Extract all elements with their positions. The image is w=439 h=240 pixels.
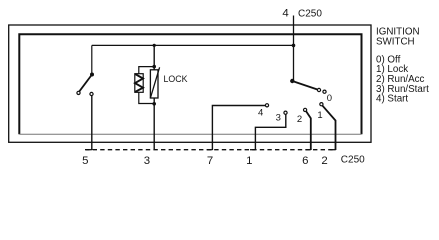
svg-text:4: 4 <box>282 8 288 20</box>
svg-text:3: 3 <box>144 155 150 167</box>
svg-text:1: 1 <box>246 155 252 167</box>
svg-text:5: 5 <box>82 155 88 167</box>
svg-text:1: 1 <box>317 110 322 121</box>
svg-text:2: 2 <box>297 114 302 125</box>
svg-text:LOCK: LOCK <box>164 74 188 84</box>
svg-text:0: 0 <box>327 93 332 104</box>
svg-text:4) Start: 4) Start <box>376 94 408 105</box>
svg-text:6: 6 <box>302 155 308 167</box>
svg-text:2: 2 <box>321 155 327 167</box>
svg-text:3: 3 <box>276 113 281 124</box>
svg-text:C250: C250 <box>341 154 365 165</box>
svg-text:4: 4 <box>258 108 263 119</box>
svg-text:7: 7 <box>207 155 213 167</box>
svg-text:C250: C250 <box>298 8 322 19</box>
svg-text:SWITCH: SWITCH <box>376 37 415 48</box>
